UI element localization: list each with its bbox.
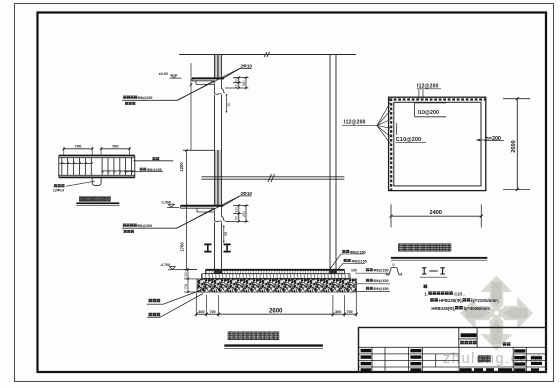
svg-text:700: 700 — [184, 284, 188, 290]
svg-text:zhulong.com: zhulong.com — [443, 350, 543, 367]
svg-text:200: 200 — [235, 207, 239, 213]
svg-text:Φ8@150: Φ8@150 — [352, 259, 367, 263]
svg-text:2400: 2400 — [429, 210, 441, 216]
svg-text:I12@200: I12@200 — [417, 83, 439, 89]
svg-text:150: 150 — [184, 272, 188, 278]
svg-text:2600: 2600 — [269, 308, 283, 314]
svg-text:2Φ10: 2Φ10 — [241, 191, 253, 196]
svg-text:Φ8: Φ8 — [224, 232, 228, 237]
svg-text:HRB335(Φ),: HRB335(Φ), — [431, 306, 455, 311]
svg-text:±0.00: ±0.00 — [159, 72, 168, 76]
svg-text:Φ8@200: Φ8@200 — [147, 168, 162, 172]
svg-text:-4.700: -4.700 — [160, 263, 170, 267]
svg-text:50: 50 — [227, 103, 231, 107]
svg-text:I12@200: I12@200 — [344, 119, 366, 125]
svg-text:250: 250 — [242, 211, 246, 217]
svg-text:-1.500: -1.500 — [161, 201, 171, 205]
svg-text:Φ8@200: Φ8@200 — [137, 224, 152, 228]
svg-text:700: 700 — [112, 144, 119, 149]
svg-text:Φ8@150: Φ8@150 — [373, 287, 388, 291]
svg-text:700: 700 — [209, 310, 215, 314]
svg-text:1700: 1700 — [180, 242, 185, 252]
svg-text:100: 100 — [351, 268, 357, 272]
svg-text:50: 50 — [235, 216, 239, 220]
svg-text:700: 700 — [75, 144, 82, 149]
svg-text:Φ8@150: Φ8@150 — [373, 269, 388, 273]
svg-text:HPB235(Φ),: HPB235(Φ), — [439, 298, 463, 303]
svg-text:Φ8@200: Φ8@200 — [138, 96, 153, 100]
svg-text:C23 ,: C23 , — [454, 291, 464, 296]
svg-text:12Φ14: 12Φ14 — [53, 188, 64, 192]
svg-text:I10@200: I10@200 — [418, 110, 440, 116]
svg-text:300: 300 — [198, 310, 204, 314]
svg-text:fy=210N/mm²,: fy=210N/mm², — [471, 298, 499, 303]
svg-text:700: 700 — [346, 310, 352, 314]
svg-text:fy=300N/mm².: fy=300N/mm². — [464, 306, 492, 311]
svg-text:Φ8@150: Φ8@150 — [373, 279, 388, 283]
svg-text:C10@200: C10@200 — [396, 137, 422, 143]
svg-text:2600: 2600 — [511, 140, 517, 152]
svg-text:1.: 1. — [424, 291, 428, 296]
svg-text:2Φ10: 2Φ10 — [241, 63, 253, 68]
svg-text:300: 300 — [235, 78, 239, 84]
svg-text:350: 350 — [242, 80, 246, 86]
svg-text:1200: 1200 — [179, 162, 184, 172]
svg-text:50: 50 — [235, 84, 239, 88]
svg-text:300: 300 — [335, 310, 341, 314]
